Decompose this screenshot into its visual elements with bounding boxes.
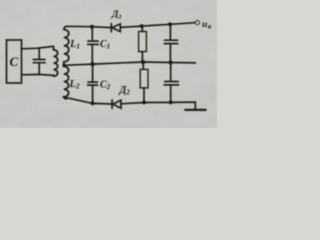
wire D1 to output terminal bbox=[120, 23, 195, 28]
capacitor C1 bbox=[88, 27, 99, 64]
wire secondary top to diode D1 bbox=[67, 26, 112, 27]
node: R1/R2 mid junction bbox=[141, 60, 145, 64]
wire D2 to ground corner bbox=[121, 102, 195, 109]
node: R2 bottom junction bbox=[142, 101, 146, 105]
wire center tap rail bbox=[64, 62, 196, 65]
inductor L2 secondary bottom bbox=[64, 65, 69, 99]
node: C3/C4 mid junction bbox=[169, 61, 173, 65]
capacitor (parallel to primary) bbox=[33, 48, 45, 74]
svg-text:uв: uв bbox=[202, 20, 212, 30]
inductor primary winding bbox=[54, 46, 58, 76]
wire box-bottom to tank bbox=[22, 74, 54, 75]
node: R1 top junction bbox=[140, 24, 144, 28]
diode D1 bbox=[111, 24, 120, 32]
capacitor C3 bbox=[164, 24, 177, 62]
resistor R2 bbox=[142, 62, 145, 102]
node: C1/C2 mid junction bbox=[91, 62, 95, 66]
wire box-top to tank bbox=[22, 46, 54, 48]
capacitor C2 bbox=[88, 64, 98, 103]
resistor R1 bbox=[141, 26, 143, 62]
ground bbox=[185, 109, 205, 111]
node: C3 top junction bbox=[168, 22, 172, 26]
capacitor C4 bbox=[164, 62, 178, 102]
wire secondary bottom to diode D2 bbox=[63, 97, 112, 104]
node: C2 bottom junction bbox=[91, 102, 95, 106]
block C (source box) bbox=[7, 40, 22, 83]
node: C1 top junction bbox=[90, 25, 94, 29]
paper background bbox=[0, 0, 217, 128]
inductor L1 secondary top bbox=[64, 26, 69, 65]
node: C4 bottom junction bbox=[169, 101, 173, 105]
terminal output bbox=[196, 21, 200, 25]
diode D2 bbox=[112, 100, 121, 108]
node: center tap bbox=[63, 64, 66, 67]
svg-text:C: C bbox=[10, 54, 19, 69]
